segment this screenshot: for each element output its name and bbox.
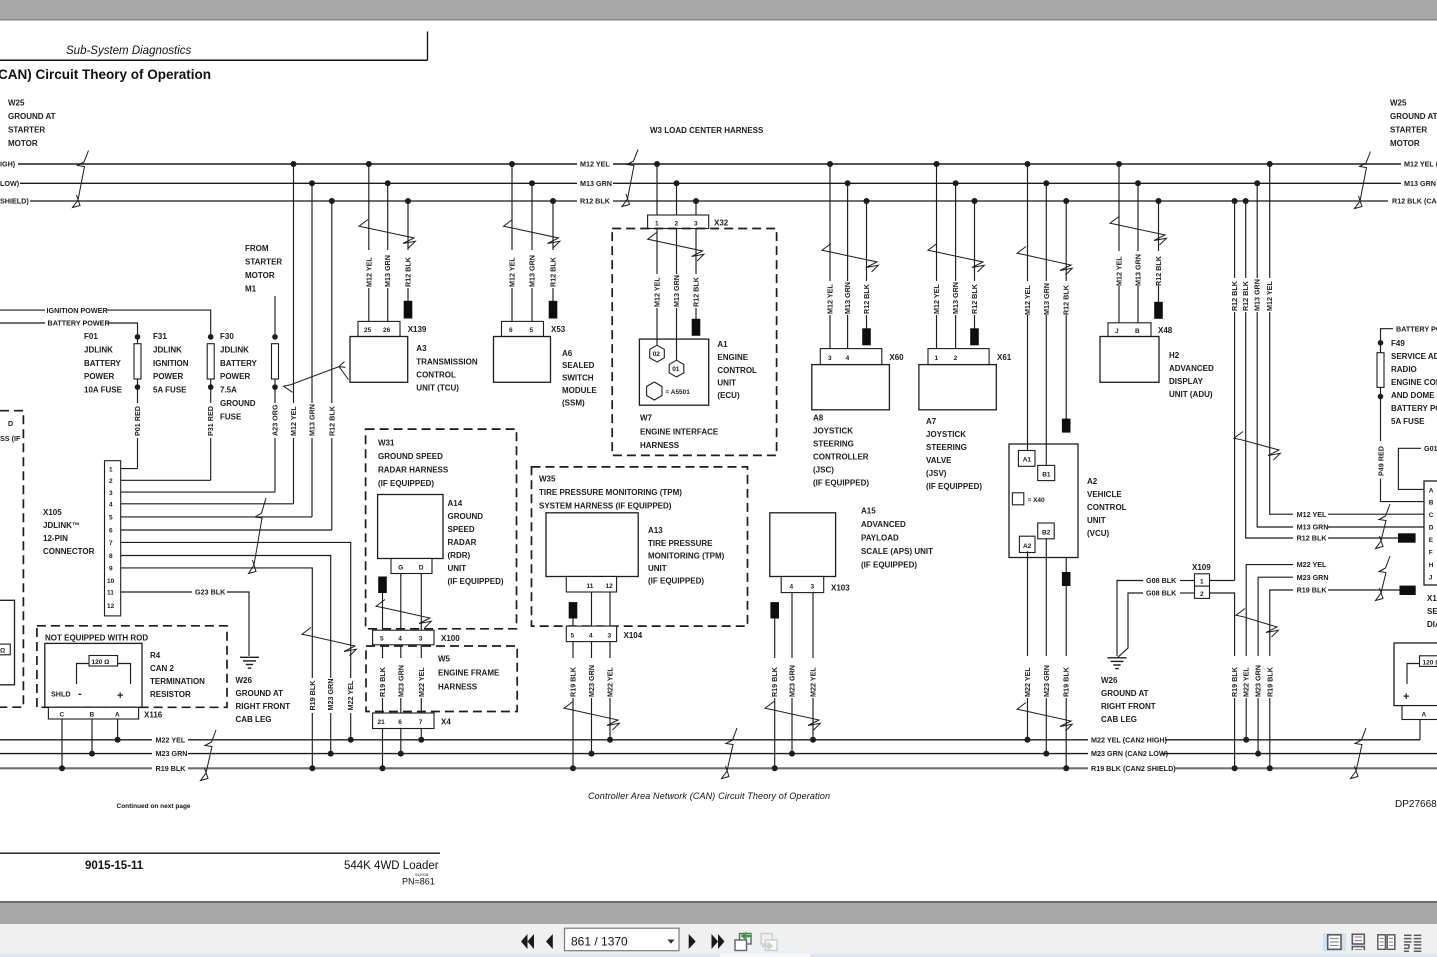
- ground W26 right front cab leg (left): [236, 657, 291, 724]
- svg-text:M23 GRN (CAN2 LOW): M23 GRN (CAN2 LOW): [1091, 749, 1169, 758]
- svg-text:7: 7: [419, 719, 423, 726]
- svg-text:UNIT: UNIT: [448, 564, 467, 573]
- svg-text:F49: F49: [1391, 339, 1405, 348]
- wire break on buses left (W25): [73, 151, 89, 208]
- wire X116 B to CAN2 LOW: [91, 719, 93, 754]
- svg-text:(IF EQUIPPED): (IF EQUIPPED): [861, 561, 917, 570]
- svg-text:IGNITION: IGNITION: [153, 359, 189, 368]
- A13 pin box 11 12: [566, 577, 616, 593]
- CAN2 HIGH bus M22 YEL: [0, 735, 1420, 744]
- wire X104 pin4 to CAN2 LOW: [587, 642, 596, 754]
- svg-text:M12 YEL: M12 YEL: [1115, 256, 1124, 286]
- svg-text:D: D: [419, 565, 424, 572]
- svg-text:ENGINE INTERFACE: ENGINE INTERFACE: [640, 428, 719, 437]
- wire X104 pin5 to CAN2 SHIELD: [569, 642, 578, 769]
- svg-text:4: 4: [398, 636, 402, 643]
- svg-text:DISPLAY: DISPLAY: [1169, 377, 1204, 386]
- svg-text:GROUND AT: GROUND AT: [236, 689, 284, 698]
- VCU A2 box: [1009, 444, 1127, 558]
- wire R12 BLK shield stub at VCU with terminator: [1062, 201, 1071, 433]
- wire R19 BLK shield from VCU with terminator to CAN2 SHIELD: [1062, 558, 1071, 769]
- svg-text:R19 BLK (CAN2 SHIELD): R19 BLK (CAN2 SHIELD): [1091, 764, 1176, 773]
- wire R12 BLK shield drop to X109 pin1: [1230, 201, 1239, 581]
- svg-text:ADVANCED: ADVANCED: [1169, 364, 1214, 373]
- svg-text:2: 2: [109, 478, 113, 485]
- svg-text:CONTROL: CONTROL: [1087, 503, 1127, 512]
- svg-text:4: 4: [846, 355, 850, 362]
- svg-text:UNIT (ADU): UNIT (ADU): [1169, 390, 1213, 399]
- svg-text:C: C: [1429, 512, 1434, 519]
- CAN1 HIGH bus M12 YEL: [0, 160, 1437, 169]
- svg-text:J: J: [1429, 575, 1433, 582]
- fuse F49 service advisor radio 5A: [1377, 339, 1437, 441]
- svg-text:M13 GRN: M13 GRN: [1042, 283, 1051, 315]
- svg-text:X116: X116: [144, 711, 163, 720]
- svg-text:RADAR: RADAR: [448, 538, 477, 547]
- svg-text:M13 GRN: M13 GRN: [843, 282, 852, 314]
- R4 CAN 2 TERMINATION RESISTOR: [45, 643, 205, 707]
- svg-text:MOTOR: MOTOR: [245, 271, 275, 280]
- svg-text:M13 GRN: M13 GRN: [383, 255, 392, 287]
- svg-text:W31: W31: [378, 439, 395, 448]
- svg-text:M23 GRN: M23 GRN: [1042, 665, 1051, 697]
- svg-text:A13: A13: [648, 526, 663, 535]
- wire M23 GRN connector pin J to CAN2 LOW: [1254, 577, 1293, 753]
- svg-text:R12 BLK: R12 BLK: [862, 283, 871, 314]
- wire M12 YEL drop to X61 pin1: [932, 164, 941, 349]
- svg-text:TIRE PRESSURE: TIRE PRESSURE: [648, 539, 713, 548]
- FROM STARTER MOTOR M1 label: [245, 244, 282, 294]
- shield stub terminator at A15: [770, 602, 779, 768]
- svg-text:9015-15-11: 9015-15-11: [85, 860, 144, 872]
- svg-text:(IF EQUIPPED): (IF EQUIPPED): [648, 577, 704, 586]
- svg-text:JDLINK: JDLINK: [153, 345, 182, 354]
- connector X60: [820, 349, 904, 365]
- wire M13 GRN drop to X32 pin2: [676, 183, 678, 215]
- wire A14 pin D to X100 pin3: [420, 574, 422, 631]
- svg-text:4: 4: [589, 632, 593, 639]
- svg-text:DIAGNOSTIC: DIAGNOSTIC: [1427, 620, 1437, 629]
- svg-text:25: 25: [364, 327, 372, 334]
- svg-text:IGNITION POWER: IGNITION POWER: [47, 306, 109, 315]
- svg-text:M23 GRN: M23 GRN: [396, 665, 405, 697]
- terminator on R19 BLK feed: [1400, 586, 1416, 595]
- svg-text:12-PIN: 12-PIN: [43, 534, 68, 543]
- wire X4 pin21 to CAN2 SHIELD: [382, 729, 384, 769]
- svg-text:X32: X32: [714, 219, 729, 228]
- svg-text:RADAR HARNESS: RADAR HARNESS: [378, 466, 449, 475]
- connector X61: [928, 349, 1012, 365]
- svg-text:JOYSTICK: JOYSTICK: [926, 430, 966, 439]
- svg-text:X60: X60: [889, 353, 904, 362]
- SSM A6 box: [494, 337, 598, 408]
- svg-text:2: 2: [1200, 591, 1204, 598]
- wire X105 pin8 to CAN2 LOW: [121, 556, 331, 754]
- svg-text:F: F: [1429, 550, 1433, 557]
- IGNITION POWER feed line: [0, 306, 211, 337]
- W35 TPM SYSTEM HARNESS dashed box: [532, 467, 748, 626]
- right edge connector X117: [1424, 481, 1437, 629]
- VCU pin B2: [1038, 523, 1055, 539]
- svg-text:(IF EQUIPPED): (IF EQUIPPED): [926, 482, 982, 491]
- ADU H2 box: [1100, 337, 1214, 400]
- svg-text:SCALE (APS) UNIT: SCALE (APS) UNIT: [861, 547, 933, 556]
- svg-text:3: 3: [828, 355, 832, 362]
- svg-text:10: 10: [107, 578, 115, 585]
- wire X105 pin6 stub: [121, 529, 332, 531]
- svg-text:5A FUSE: 5A FUSE: [153, 386, 187, 395]
- TPM A13 box: [546, 513, 725, 586]
- wire M12 YEL drop to X60 pin3: [826, 164, 835, 349]
- wire M12 YEL drop to X139 pin25: [364, 164, 373, 321]
- svg-text:= A5501: = A5501: [665, 389, 690, 396]
- BATTERY POWER feed at F49: [1381, 324, 1437, 340]
- left edge cut-off termination resistor: [0, 600, 15, 685]
- svg-text:M13 GRN (CA: M13 GRN (CA: [1404, 179, 1437, 188]
- wire M13 GRN X32 to ECU hex 01: [672, 229, 681, 361]
- svg-text:B: B: [90, 712, 95, 719]
- svg-text:GROUND: GROUND: [448, 512, 484, 521]
- wire R12 BLK shield stub at X53 with terminator: [549, 201, 558, 319]
- junction dots on CAN1 HIGH bus: [291, 161, 1273, 167]
- CAN1 SHIELD bus R12 BLK: [0, 197, 1437, 206]
- page layout icon: single page (selected): [1323, 933, 1346, 951]
- svg-text:E: E: [1429, 537, 1434, 544]
- wire M23 GRN X100 pin4 to X4 pin6: [396, 645, 405, 713]
- svg-text:RIGHT FRONT: RIGHT FRONT: [236, 702, 291, 711]
- svg-text:SEALED: SEALED: [562, 361, 595, 370]
- wire break X104 group: [564, 702, 619, 731]
- wire break X60 drop group: [822, 244, 878, 273]
- right edge cut-off termination resistor: [1394, 643, 1437, 706]
- svg-text:12: 12: [107, 603, 115, 610]
- svg-text:RADIO: RADIO: [1391, 365, 1417, 374]
- svg-text:A2: A2: [1087, 477, 1098, 486]
- svg-text:J: J: [1115, 328, 1119, 335]
- wire G01 to connector pin A: [1398, 444, 1437, 489]
- svg-text:R19 BLK: R19 BLK: [378, 666, 387, 697]
- svg-text:TERMINATION: TERMINATION: [150, 677, 205, 686]
- JSV A7 box: [919, 365, 996, 491]
- svg-text:M22 YEL (CAN2 HIGH): M22 YEL (CAN2 HIGH): [1091, 735, 1168, 744]
- svg-text:R12 BLK: R12 BLK: [692, 276, 701, 307]
- W31 GROUND SPEED RADAR HARNESS dashed box: [366, 429, 517, 629]
- svg-text:X117: X117: [1427, 594, 1437, 603]
- wire M12 YEL drop to X32 pin1: [656, 164, 658, 215]
- svg-text:8: 8: [109, 553, 113, 560]
- wire X103 pin3 to CAN2 HIGH: [809, 593, 818, 740]
- svg-text:B2: B2: [1042, 530, 1051, 537]
- wire G08 BLK X109 pin1 to ground: [1117, 576, 1195, 656]
- svg-text:(SSM): (SSM): [562, 399, 585, 408]
- svg-text:A2: A2: [1023, 543, 1032, 550]
- svg-text:5: 5: [109, 515, 113, 522]
- svg-text:= X40: = X40: [1028, 497, 1046, 504]
- svg-text:GROUND AT: GROUND AT: [1390, 112, 1437, 121]
- svg-text:R19 BLK: R19 BLK: [308, 680, 317, 711]
- svg-text:+: +: [117, 690, 123, 702]
- svg-text:M22 YEL: M22 YEL: [1023, 667, 1032, 697]
- svg-text:R12 BLK: R12 BLK: [404, 256, 413, 287]
- svg-text:R12 BLK: R12 BLK: [1062, 284, 1071, 315]
- wire P49 RED fuse to connector pin B: [1377, 446, 1424, 502]
- fuse F01 JDLINK BATTERY POWER 10A: [84, 332, 142, 469]
- wire M13 GRN drop to VCU pin B1: [1042, 183, 1051, 466]
- wire break CAN2 buses left: [201, 730, 217, 781]
- svg-text:9: 9: [109, 566, 113, 573]
- shield stub terminator above X104 pin5: [569, 602, 578, 626]
- svg-text:HARNESS: HARNESS: [438, 683, 478, 692]
- svg-text:G23 BLK: G23 BLK: [195, 588, 226, 597]
- svg-text:M22 YEL: M22 YEL: [606, 667, 615, 697]
- svg-text:A23 ORG: A23 ORG: [271, 404, 280, 436]
- svg-text:JOYSTICK: JOYSTICK: [813, 427, 853, 436]
- wire M12 YEL drop to VCU pin A1: [1023, 164, 1032, 452]
- svg-text:R12 BLK: R12 BLK: [327, 405, 336, 436]
- wire break fuse output group: [284, 362, 349, 393]
- svg-text:R12 BLK: R12 BLK: [1297, 534, 1328, 543]
- wire M12 YEL drop to X53 pin6: [508, 164, 517, 321]
- svg-text:X109: X109: [1192, 563, 1211, 572]
- svg-text:W7: W7: [640, 414, 653, 423]
- VCU pin A2: [1019, 536, 1035, 552]
- toolbar first-page button: [521, 934, 534, 949]
- wire break X32 drop group: [648, 233, 704, 262]
- svg-text:R12 BLK: R12 BLK: [580, 197, 611, 206]
- svg-text:M13 GRN: M13 GRN: [1297, 523, 1329, 532]
- svg-text:R19 BLK: R19 BLK: [1062, 666, 1071, 697]
- svg-text:M12 YEL: M12 YEL: [1297, 510, 1327, 519]
- svg-text:SHLD: SHLD: [51, 690, 71, 699]
- wire R19 BLK X100 pin5 to X4 pin21: [378, 645, 387, 713]
- right CAN1 feed lines to connector: [1297, 510, 1424, 543]
- svg-text:M23 GRN: M23 GRN: [1254, 665, 1263, 697]
- wire M13 GRN drop to X60 pin4: [843, 183, 852, 348]
- wire X4 pin7 to CAN2 HIGH: [420, 729, 422, 740]
- svg-text:VALVE: VALVE: [926, 456, 952, 465]
- svg-text:SHIELD): SHIELD): [0, 197, 29, 206]
- svg-text:M12 YEL: M12 YEL: [508, 257, 517, 287]
- junction dots on CAN2 SHIELD bus: [59, 765, 1273, 771]
- svg-text:X61: X61: [997, 353, 1012, 362]
- right edge connector pin A: [1402, 706, 1437, 720]
- VCU pin A1: [1018, 451, 1035, 467]
- wire break VCU drop group: [1017, 247, 1072, 276]
- svg-text:R12 BLK: R12 BLK: [549, 256, 558, 287]
- wire X105 pin3 stub: [121, 491, 275, 493]
- svg-text:CAB LEG: CAB LEG: [1101, 715, 1137, 724]
- svg-text:A1: A1: [717, 340, 728, 349]
- svg-text:M22 YEL: M22 YEL: [1242, 667, 1251, 697]
- bottom page edge line: [0, 901, 1437, 903]
- wire break on buses right (W25): [1355, 152, 1371, 209]
- svg-text:M22 YEL: M22 YEL: [346, 680, 355, 710]
- wire M13 GRN drop turning right to connector pin D: [1253, 183, 1293, 527]
- svg-text:ADVANCED: ADVANCED: [861, 520, 906, 529]
- svg-text:ENGINE FRAME: ENGINE FRAME: [438, 669, 500, 678]
- svg-text:(RDR): (RDR): [448, 551, 471, 560]
- svg-text:A1: A1: [1023, 457, 1032, 464]
- svg-text:SERVICE ADVISOR: SERVICE ADVISOR: [1391, 352, 1437, 361]
- svg-text:W3 LOAD CENTER HARNESS: W3 LOAD CENTER HARNESS: [650, 126, 764, 135]
- svg-text:P31 RED: P31 RED: [206, 406, 215, 436]
- X105 JDLINK 12-PIN CONNECTOR: [43, 461, 121, 616]
- svg-text:TRANSMISSION: TRANSMISSION: [416, 358, 478, 367]
- wire M12 YEL X32 to ECU hex 02: [653, 229, 662, 346]
- svg-text:M12 YEL: M12 YEL: [580, 160, 610, 169]
- wire X103 pin4 to CAN2 LOW: [788, 593, 797, 754]
- svg-text:M12 YEL: M12 YEL: [1265, 281, 1274, 311]
- svg-text:SERVICE: SERVICE: [1427, 607, 1437, 616]
- wire break X48 drop group: [1110, 217, 1166, 246]
- svg-text:FROM: FROM: [245, 244, 269, 253]
- junction dots on CAN2 LOW bus: [89, 751, 1261, 757]
- svg-text:(IF EQUIPPED): (IF EQUIPPED): [448, 577, 504, 586]
- CAN2 SHIELD bus R19 BLK: [0, 764, 1437, 773]
- svg-text:10A FUSE: 10A FUSE: [84, 386, 123, 395]
- svg-text:M13 GRN: M13 GRN: [1134, 254, 1143, 286]
- svg-text:-: -: [78, 688, 82, 700]
- svg-text:544K 4WD Loader: 544K 4WD Loader: [344, 860, 439, 872]
- page layout icon: continuous scrolling: [1352, 934, 1364, 950]
- svg-text:STARTER: STARTER: [245, 258, 282, 267]
- svg-text:A3: A3: [416, 344, 427, 353]
- svg-text:JDLINK™: JDLINK™: [43, 521, 80, 530]
- svg-text:120 Ω: 120 Ω: [1423, 659, 1437, 666]
- wire break X61 drop group: [928, 244, 984, 273]
- svg-text:(ECU): (ECU): [717, 391, 740, 400]
- svg-text:26: 26: [383, 327, 391, 334]
- svg-text:X104: X104: [624, 631, 643, 640]
- svg-text:02: 02: [653, 351, 661, 358]
- wire R12 BLK drop turning right at connector E row: [1241, 201, 1293, 538]
- taskbar edge strip: [0, 954, 1437, 957]
- svg-text:R12 BLK: R12 BLK: [1241, 280, 1250, 311]
- svg-text:H2: H2: [1169, 351, 1180, 360]
- wire break on buses mid (W3 boundary): [622, 150, 638, 207]
- svg-text:M13 GRN: M13 GRN: [672, 275, 681, 307]
- NOT EQUIPPED WITH ROD dashed box: [37, 626, 227, 708]
- svg-text:A7: A7: [926, 417, 937, 426]
- svg-text:B: B: [1429, 500, 1434, 507]
- CAN2 LOW bus M23 GRN: [0, 749, 1437, 758]
- svg-text:21: 21: [378, 719, 386, 726]
- svg-text:BATTERY POWER: BATTERY POWER: [1396, 324, 1437, 333]
- svg-text:SWITCH: SWITCH: [562, 374, 594, 383]
- svg-text:ENGINE: ENGINE: [717, 353, 748, 362]
- svg-text:X4: X4: [441, 718, 451, 727]
- svg-text:M22 YEL: M22 YEL: [809, 667, 818, 697]
- wire M13 GRN drop to X105 pin5: [308, 183, 317, 517]
- svg-text:M12 YEL: M12 YEL: [1023, 285, 1032, 315]
- svg-text:7.5A: 7.5A: [220, 386, 237, 395]
- svg-text:ENGINE CONTROL: ENGINE CONTROL: [1391, 378, 1437, 387]
- svg-text:BATTERY POWER: BATTERY POWER: [1391, 404, 1437, 413]
- svg-text:R19 BLK: R19 BLK: [1297, 586, 1328, 595]
- svg-text:A: A: [115, 712, 120, 719]
- svg-text:P49 RED: P49 RED: [1377, 446, 1386, 476]
- wire break X53 drop group: [504, 220, 560, 249]
- svg-text:DP27668: DP27668: [1395, 799, 1437, 810]
- svg-text:B: B: [1135, 328, 1140, 335]
- svg-text:+: +: [1403, 691, 1409, 703]
- svg-text:STARTER: STARTER: [1390, 126, 1427, 135]
- wire break CAN2 buses right: [1351, 728, 1367, 779]
- svg-text:R19 BLK: R19 BLK: [1230, 666, 1239, 697]
- toolbar next-view icon (disabled): [761, 934, 777, 951]
- svg-text:GROUND AT: GROUND AT: [8, 112, 56, 121]
- svg-text:SYSTEM HARNESS (IF EQUIPPED): SYSTEM HARNESS (IF EQUIPPED): [539, 502, 672, 511]
- svg-text:01: 01: [672, 366, 680, 373]
- svg-text:MONITORING (TPM): MONITORING (TPM): [648, 552, 725, 561]
- svg-text:(JSC): (JSC): [813, 466, 834, 475]
- wire X105 pin4 stub: [121, 503, 294, 505]
- svg-text:3: 3: [608, 632, 612, 639]
- wire M13 GRN drop to X53 pin5: [528, 183, 537, 321]
- svg-text:R19 BLK: R19 BLK: [1265, 666, 1274, 697]
- svg-text:POWER: POWER: [84, 372, 114, 381]
- wire from starter motor M1 to F30: [274, 296, 276, 337]
- svg-text:D: D: [8, 419, 13, 428]
- svg-text:PAYLOAD: PAYLOAD: [861, 534, 899, 543]
- svg-text:GROUND: GROUND: [220, 399, 256, 408]
- svg-text:11: 11: [107, 590, 114, 597]
- right CAN2 feed lines to connector: [1297, 560, 1400, 594]
- svg-text:SPEED: SPEED: [448, 525, 475, 534]
- svg-text:UNIT (TCU): UNIT (TCU): [416, 384, 459, 393]
- svg-text:M12 YEL: M12 YEL: [826, 284, 835, 314]
- svg-text:M23 GRN: M23 GRN: [1297, 573, 1329, 582]
- svg-text:MOTOR: MOTOR: [1390, 139, 1420, 148]
- svg-text:R4: R4: [150, 651, 161, 660]
- svg-text:VEHICLE: VEHICLE: [1087, 490, 1122, 499]
- svg-text:D: D: [1429, 525, 1434, 532]
- svg-text:M23 GRN: M23 GRN: [587, 665, 596, 697]
- connector X4: [373, 713, 452, 729]
- svg-text:A8: A8: [813, 414, 824, 423]
- svg-text:7: 7: [109, 540, 113, 547]
- page layout icon: two page scrolling: [1404, 935, 1421, 951]
- svg-text:F31: F31: [153, 332, 167, 341]
- svg-text:M23 GRN: M23 GRN: [156, 749, 188, 758]
- svg-text:3: 3: [109, 490, 113, 497]
- shield stub terminator above X100 pin5: [378, 577, 387, 631]
- wire break CAN2 buses mid: [722, 728, 738, 779]
- toolbar page combo box: [565, 928, 680, 951]
- connector X109: [1192, 563, 1211, 598]
- svg-text:W26: W26: [236, 676, 253, 685]
- svg-text:W26: W26: [1101, 676, 1118, 685]
- svg-text:R19 BLK: R19 BLK: [156, 764, 187, 773]
- svg-text:M12 YEL: M12 YEL: [653, 277, 662, 307]
- wire X109 pin1 junction from shield drop: [1210, 580, 1235, 582]
- svg-text:R19 BLK: R19 BLK: [770, 666, 779, 697]
- TCU A3 box: [350, 337, 478, 393]
- BATTERY POWER feed line: [0, 319, 138, 337]
- wire R12 BLK shield stub in W7 with terminator: [692, 229, 701, 336]
- svg-text:POWER: POWER: [153, 372, 183, 381]
- bottom gray bar: [0, 903, 1437, 924]
- svg-text:120 Ω: 120 Ω: [92, 659, 110, 666]
- connector X100: [373, 630, 461, 645]
- svg-text:5A FUSE: 5A FUSE: [1391, 417, 1425, 426]
- ECU hex pin 01: [669, 360, 684, 377]
- connector X48: [1108, 323, 1173, 337]
- wire R12 BLK shield stub at X60 with terminator: [862, 201, 871, 345]
- svg-text:A14: A14: [448, 499, 463, 508]
- wire break lower right 4-wire group: [1236, 609, 1278, 638]
- svg-text:M12 YEL (CAN: M12 YEL (CAN: [1404, 160, 1437, 169]
